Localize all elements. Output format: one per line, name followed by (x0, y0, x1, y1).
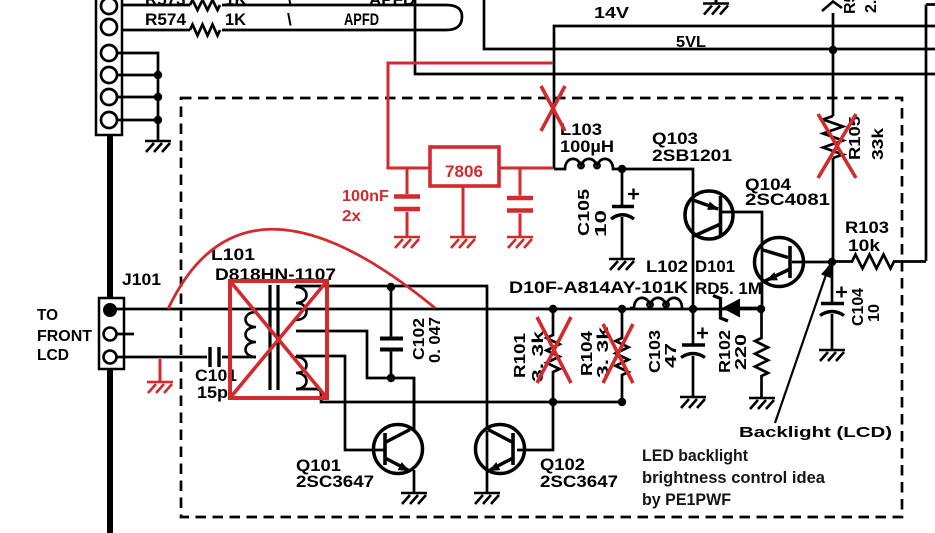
wire Q103 base to Q104 (722, 212, 762, 309)
capacitor C105 plates (612, 205, 634, 209)
Q104 emitter arrow (766, 272, 778, 280)
dashed module border (181, 98, 902, 517)
wire secondary mid tap to C102 bottom / Q101 collector (296, 331, 414, 430)
capacitor C104 (831, 262, 834, 350)
diode D101 zener (713, 296, 728, 322)
svg-text:2SB1201: 2SB1201 (652, 146, 732, 165)
resistor R102 (755, 309, 768, 398)
svg-text:15p: 15p (197, 383, 228, 402)
svg-text:TO: TO (37, 307, 58, 324)
node L103 out (618, 165, 626, 173)
svg-text:APFD: APFD (344, 10, 379, 29)
svg-text:10: 10 (593, 210, 610, 237)
red ground input cap (394, 237, 420, 248)
ground R102 (749, 398, 775, 409)
svg-text:2SC4081: 2SC4081 (745, 190, 830, 209)
red X over 14V-L103 link (541, 86, 565, 131)
svg-text:14V: 14V (594, 5, 629, 22)
wire Q104 base to R103 node (792, 261, 832, 264)
node Q104 base / C104 / R103 (828, 258, 836, 266)
wire thick shield line (107, 135, 113, 533)
ground Q101 (401, 493, 427, 504)
RED ANNOTATIONS (147, 63, 856, 398)
svg-text:47: 47 (663, 343, 680, 368)
node pin6 (154, 116, 162, 124)
capacitor C105 stem (621, 171, 624, 259)
red regulator 7806 box (430, 147, 499, 186)
node R104 top (618, 305, 626, 313)
svg-text:C104: C104 (850, 288, 867, 326)
connector CN (top left) (96, 0, 122, 135)
wire pin2 stub (117, 333, 134, 336)
C105 plus (628, 189, 639, 200)
svg-text:R104: R104 (579, 331, 596, 376)
svg-text:220: 220 (733, 334, 750, 370)
node C102 bottom (387, 374, 395, 382)
svg-text:\: \ (287, 10, 292, 29)
svg-text:L102: L102 (646, 257, 688, 276)
transistor Q101 (374, 377, 423, 493)
arrow backlight to node (775, 266, 829, 423)
svg-text:2x: 2x (342, 208, 361, 225)
node R101 top (549, 305, 557, 313)
node R104 bottom (618, 398, 626, 406)
resistor R104 (vertical, crossed out) (616, 309, 629, 402)
svg-text:100µH: 100µH (560, 137, 614, 156)
svg-text:1K: 1K (225, 10, 247, 29)
svg-text:R5: R5 (842, 0, 859, 14)
L101 primary winding (246, 309, 257, 357)
wire pins3-6 bus (116, 53, 158, 141)
transformer L101 (246, 285, 307, 390)
svg-text:C103: C103 (647, 330, 664, 373)
svg-text:LED backlight: LED backlight (642, 447, 748, 465)
wire vertical x484 5VL feed (484, 0, 935, 49)
connector J101 (99, 298, 124, 369)
red capacitor input 100nF (406, 168, 409, 237)
inductor L102 (630, 298, 682, 308)
red wire 7806 input from 14V (388, 63, 553, 168)
L101 secondary top winding (296, 286, 307, 320)
node R101 bottom (549, 398, 557, 406)
capacitor C102 (390, 287, 393, 378)
svg-text:R574: R574 (145, 10, 187, 29)
arrowhead R5xx (822, 2, 842, 12)
resistor R103 (832, 255, 926, 269)
wire row2 R574/APFD (112, 29, 446, 32)
resistor R101 (vertical, crossed out) (547, 309, 560, 402)
transistor Q102 (476, 425, 525, 494)
svg-text:D101: D101 (695, 257, 735, 276)
svg-text:7806: 7806 (445, 162, 483, 181)
transistor Q103 (685, 191, 733, 239)
red wire 7806 output (499, 167, 553, 170)
svg-text:APFD: APFD (369, 0, 415, 9)
wire main rail y309 (116, 308, 762, 311)
svg-text:R102: R102 (717, 330, 734, 373)
red capacitor output 100nF (519, 168, 522, 237)
wire pin3 to C101 (117, 356, 207, 359)
wire C101 to L101 (222, 356, 256, 359)
svg-text:5VL: 5VL (676, 34, 706, 51)
svg-text:J101: J101 (122, 270, 161, 289)
transistor Q104 (755, 238, 804, 287)
wire Q102 base from lower rail (517, 402, 553, 450)
Q103 emitter arrow (PNP) (707, 202, 719, 210)
red bypass curve (168, 229, 435, 309)
svg-text:by PE1PWF: by PE1PWF (642, 491, 731, 509)
wire right edge block (926, 5, 935, 262)
ground connector bus (145, 141, 171, 152)
svg-text:10k: 10k (848, 236, 881, 255)
svg-text:Backlight (LCD): Backlight (LCD) (739, 424, 892, 441)
svg-text:100nF: 100nF (342, 188, 389, 205)
ground Q102 (474, 493, 500, 504)
resistor R105 (vertical, crossed out) (823, 116, 843, 158)
ground C105 (609, 259, 635, 270)
resistor R574 (190, 25, 220, 36)
capacitor C101 (210, 347, 219, 367)
node C102 top (387, 283, 395, 291)
red ground J101 pin3 (159, 359, 162, 382)
wire row1 R573 top (112, 4, 446, 7)
D101 triangle (722, 299, 740, 318)
wire secondary bottom to lower rail (296, 389, 622, 402)
ground top right (703, 0, 729, 15)
svg-text:brightness control idea: brightness control idea (642, 469, 826, 487)
svg-text:33k: 33k (870, 128, 887, 160)
svg-text:R573: R573 (145, 0, 186, 9)
inductor L103 (554, 159, 622, 169)
wire vertical x415 to APFD bus (415, 0, 935, 74)
wire R5xx vertical with arrow (832, 13, 835, 261)
wire secondary top to C102 top / Q102 collector (296, 286, 487, 430)
wire secondary bottom top-end to Q101 base (296, 356, 384, 450)
svg-text:2.: 2. (863, 0, 880, 13)
node D101 anode rail (757, 305, 765, 313)
red wire 7806 gnd stem (462, 186, 465, 237)
svg-text:C105: C105 (576, 189, 593, 236)
svg-text:FRONT: FRONT (37, 328, 92, 345)
red X over R104 (603, 324, 633, 383)
svg-text:3. 3k: 3. 3k (530, 331, 547, 382)
wire L103 to Q103 (622, 169, 693, 309)
red X over R101 (537, 317, 571, 383)
node rail x693 (689, 305, 697, 313)
red X over R105 (818, 114, 856, 178)
resistor R573 (top, clipped) (190, 0, 220, 10)
svg-text:C102: C102 (411, 318, 428, 360)
svg-text:D10F-A814AY-101K: D10F-A814AY-101K (509, 278, 689, 297)
node pin4 (154, 71, 162, 79)
red ground output cap (507, 237, 533, 248)
wire U-turn bus end (446, 5, 462, 30)
svg-text:2SC3647: 2SC3647 (540, 472, 618, 491)
Q101 emitter arrow (398, 462, 410, 471)
svg-text:RD5. 1M: RD5. 1M (695, 279, 762, 298)
capacitor C103 (692, 309, 695, 397)
L101 core (270, 285, 278, 390)
svg-text:2SC3647: 2SC3647 (296, 472, 374, 491)
Q102 emitter arrow (489, 462, 501, 471)
svg-text:LCD: LCD (37, 347, 69, 364)
svg-text:R101: R101 (512, 333, 529, 378)
svg-text:1K: 1K (225, 0, 247, 9)
red box X over transformer L101 (230, 281, 327, 398)
node pin5 (154, 93, 162, 101)
ground C103 (680, 397, 706, 408)
node junction 5VL x833 (829, 46, 837, 54)
red ground 7806 (450, 237, 476, 248)
ground C104 (819, 350, 845, 361)
wire 14V rail top (554, 26, 935, 169)
svg-text:0. 047: 0. 047 (427, 317, 444, 363)
svg-text:L101: L101 (211, 245, 255, 264)
svg-text:\: \ (287, 0, 292, 9)
L101 secondary bottom winding (296, 356, 307, 389)
svg-text:10: 10 (866, 304, 883, 322)
svg-text:R103: R103 (845, 218, 889, 237)
